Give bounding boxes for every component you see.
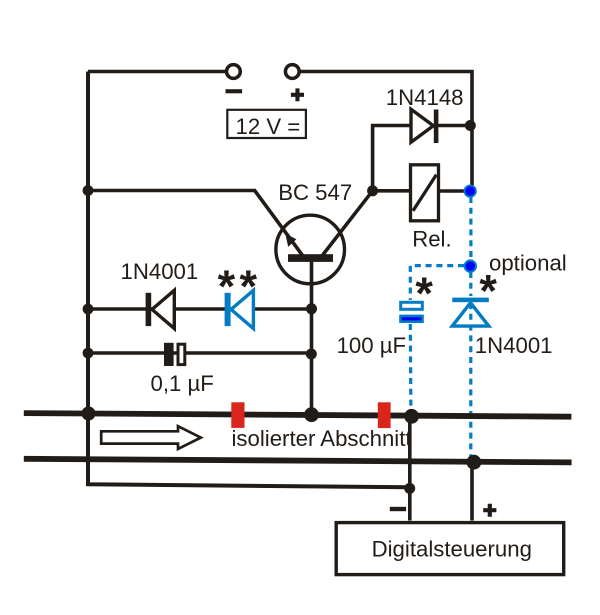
- diode D2 blue: cathode bar: [225, 293, 231, 326]
- node left diode row: [83, 304, 94, 315]
- svg-text:0,1 µF: 0,1 µF: [151, 371, 214, 396]
- svg-text:100 µF: 100 µF: [337, 333, 407, 358]
- wire from plus terminal right then down to relay branch: [300, 72, 473, 189]
- wire dashed blue capacitor to track junction: [409, 324, 413, 413]
- diode D1 1N4001 black: triangle: [152, 290, 174, 328]
- transistor Q1: base vertical down to track: [310, 258, 314, 414]
- capacitor C1 0,1 uF: filled plate: [164, 343, 174, 366]
- diode D3 1N4148: cathode bar: [434, 110, 439, 144]
- svg-text:Digitalsteuerung: Digitalsteuerung: [372, 537, 532, 562]
- svg-text:Rel.: Rel.: [412, 226, 451, 251]
- transistor Q1: emitter arrowhead: [285, 233, 296, 247]
- 12 V supply box: [227, 110, 306, 138]
- svg-text:*: *: [479, 266, 497, 317]
- node lower rail diode branch: [467, 455, 482, 470]
- wire dashed blue vertical through optional diode: [469, 272, 472, 296]
- svg-text:*: *: [218, 261, 236, 312]
- direction arrow: [101, 426, 201, 449]
- svg-text:isolierter Abschnitt: isolierter Abschnitt: [232, 426, 412, 451]
- wire dashed blue horizontal to capacitor branch, then down to capacitor: [410, 266, 464, 300]
- diode D4 optional blue: triangle: [452, 303, 489, 326]
- node rail capacitor branch: [404, 409, 419, 424]
- wire capacitor row: [88, 351, 312, 354]
- wire 1N4148 branch: vertical left + horizontals: [373, 126, 412, 191]
- svg-text:12 V =: 12 V =: [236, 114, 301, 139]
- wire plus vertical from lower rail to controller: [470, 462, 474, 521]
- capacitor C2 100uF: top plate open: [401, 302, 423, 309]
- track rail upper: [24, 413, 572, 417]
- node minus junction: [404, 483, 415, 494]
- svg-text:optional: optional: [489, 251, 567, 276]
- wire diode row: [88, 307, 312, 310]
- transistor Q1: collector diagonal: [322, 191, 372, 256]
- capacitor C2 100uF: bottom plate filled: [401, 316, 423, 322]
- controller box Digitalsteuerung: [336, 523, 564, 575]
- node right diode row: [306, 303, 317, 314]
- track rail lower: [24, 459, 572, 463]
- isolation gap marker right: [378, 402, 391, 428]
- node left capacitor row: [83, 348, 94, 359]
- svg-text:1N4001: 1N4001: [475, 333, 553, 358]
- node rail base connection: [304, 407, 319, 422]
- diode D2 blue: triangle: [231, 290, 253, 328]
- diode D1 1N4001 black: cathode bar: [146, 293, 152, 326]
- node collector junction: [367, 185, 378, 196]
- node rail left vertical: [82, 407, 96, 421]
- minus label at controller: [390, 507, 406, 511]
- minus polarity label: [226, 89, 243, 93]
- svg-text:1N4001: 1N4001: [121, 259, 199, 284]
- node 1N4148 cathode junction: [465, 120, 476, 131]
- wire minus vertical from rail to controller: [408, 416, 412, 521]
- terminal plus circle: [285, 65, 299, 79]
- svg-text:*: *: [240, 261, 258, 312]
- wire base-feed horizontal + emitter diagonal: [88, 191, 303, 256]
- node junction at left vertical / emitter wire: [83, 185, 94, 196]
- plus label at controller: [483, 504, 496, 517]
- terminal minus circle: [227, 65, 241, 79]
- svg-text:1N4148: 1N4148: [386, 85, 464, 110]
- isolation gap marker left: [231, 402, 244, 428]
- diode D4 optional blue: cathode bar: [452, 298, 489, 303]
- diode D3 1N4148: triangle: [411, 109, 433, 142]
- transistor Q1: base bar: [288, 254, 333, 262]
- node blue optional junction: [464, 259, 477, 272]
- plus polarity label: [291, 88, 304, 101]
- wire top-left horizontal from left vertical to minus terminal: [88, 70, 227, 74]
- wire left vertical rail down then bottom horizontal to minus node: [88, 72, 410, 488]
- relay K1 coil diagonal: [413, 175, 436, 211]
- svg-text:*: *: [415, 268, 433, 319]
- transistor Q1 BC547: circle: [276, 215, 345, 284]
- svg-text:BC 547: BC 547: [278, 180, 352, 205]
- relay K1 coil box: [411, 165, 439, 221]
- node blue junction at relay output: [464, 185, 477, 198]
- wire diode to right vertical: [438, 124, 470, 128]
- node right capacitor row: [306, 349, 317, 360]
- capacitor C1 0,1 uF: open plate: [178, 344, 185, 364]
- wire relay to blue node: [439, 189, 468, 193]
- wire dashed blue vertical relay node to optional node: [469, 197, 472, 260]
